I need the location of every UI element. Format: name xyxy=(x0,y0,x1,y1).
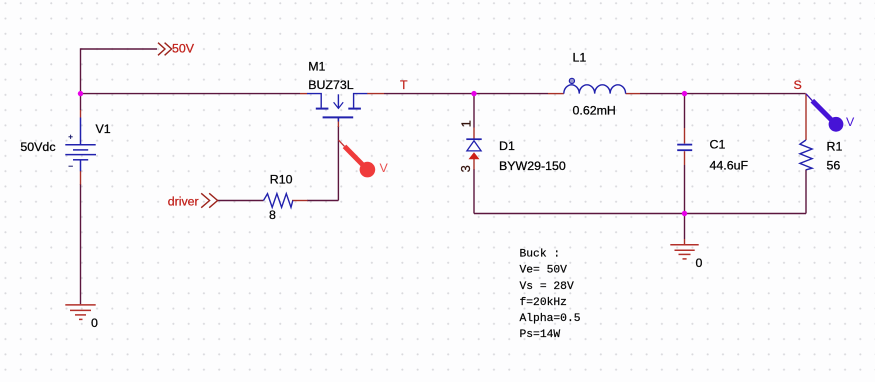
svg-text:D1: D1 xyxy=(499,139,515,153)
svg-text:V: V xyxy=(380,161,389,175)
svg-text:56: 56 xyxy=(827,159,841,173)
svg-text:Ve= 50V: Ve= 50V xyxy=(520,265,568,277)
svg-text:V: V xyxy=(846,115,855,129)
svg-text:1: 1 xyxy=(458,120,473,127)
svg-text:S: S xyxy=(794,78,802,92)
svg-text:C1: C1 xyxy=(710,138,726,152)
svg-text:0: 0 xyxy=(696,256,703,270)
svg-text:R10: R10 xyxy=(270,172,293,186)
svg-text:8: 8 xyxy=(269,208,276,222)
svg-text:L1: L1 xyxy=(573,51,587,65)
svg-text:driver: driver xyxy=(168,194,199,208)
svg-text:M1: M1 xyxy=(308,60,325,74)
svg-text:Ps=14W: Ps=14W xyxy=(520,329,561,341)
svg-text:3: 3 xyxy=(458,165,473,172)
svg-text:50V: 50V xyxy=(172,42,195,56)
svg-text:Buck :: Buck : xyxy=(520,249,561,261)
svg-text:Alpha=0.5: Alpha=0.5 xyxy=(520,313,581,325)
svg-text:44.6uF: 44.6uF xyxy=(710,159,749,173)
svg-text:BUZ73L: BUZ73L xyxy=(308,78,354,92)
svg-text:BYW29-150: BYW29-150 xyxy=(499,159,566,173)
svg-text:50Vdc: 50Vdc xyxy=(20,140,55,154)
svg-text:V1: V1 xyxy=(96,122,111,136)
svg-text:T: T xyxy=(400,78,408,92)
svg-text:f=20kHz: f=20kHz xyxy=(520,297,567,309)
svg-text:0.62mH: 0.62mH xyxy=(573,104,616,118)
svg-text:Vs = 28V: Vs = 28V xyxy=(520,281,574,293)
svg-text:R1: R1 xyxy=(827,140,843,154)
svg-text:0: 0 xyxy=(91,316,98,330)
